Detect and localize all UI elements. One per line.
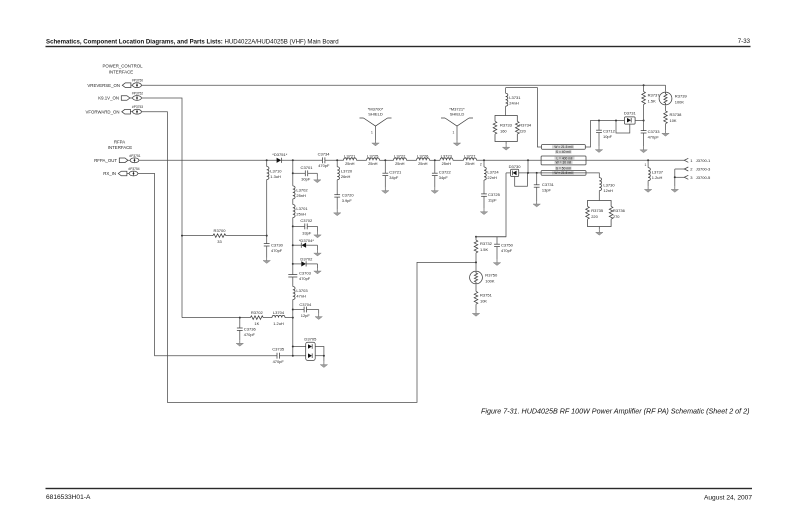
inductor L3731 24nH [506,88,522,116]
wire top microstrip right end up to detector [585,121,616,148]
ground C3750 [493,260,500,266]
svg-text:W = 30 mil: W = 30 mil [556,161,572,165]
thermistor R3750 100K [470,271,498,284]
thermistor R3739 100K [659,85,687,105]
connector J3700-3 [675,167,711,172]
node C3750/R3732 top [475,236,477,238]
svg-text:L3722: L3722 [394,153,406,158]
wire main line D3751 to C3734 [281,159,322,161]
svg-text:*D3704*: *D3704* [299,238,315,243]
svg-text:SHIELD: SHIELD [450,112,465,117]
svg-text:1: 1 [644,163,646,167]
node C3721 tap [384,159,386,161]
ground R3751 [472,310,479,316]
svg-text:C3704: C3704 [299,302,312,307]
svg-text:2: 2 [690,167,693,172]
capacitor C3701 30pF branch [292,165,318,181]
svg-text:470pF: 470pF [299,276,311,281]
svg-text:220: 220 [519,129,526,134]
svg-text:C3734: C3734 [318,151,331,156]
wire L3710 down to C3730 [266,180,268,244]
svg-text:R3750: R3750 [485,272,498,277]
port RX_IN #P3754 [103,167,140,176]
svg-text:L3702: L3702 [296,187,308,192]
capacitor C3702 33pF branch [292,218,318,235]
node D3731 input [615,120,617,122]
svg-text:470pF: 470pF [318,163,330,168]
svg-text:100K: 100K [675,99,685,104]
inductor L3725 25nH [367,153,380,166]
svg-text:*D3751*: *D3751* [272,152,288,157]
node C3712 tap [598,120,600,122]
svg-text:L3710: L3710 [270,168,282,173]
capacitor C3703 470pF (series in column) [288,270,311,281]
wire K9.1V_ON to vertical [141,98,182,318]
svg-text:#P3750: #P3750 [132,79,143,83]
svg-text:C3750: C3750 [501,242,514,247]
node C3731 tap [536,172,538,174]
resistor R3702 1K with wire from K9.1V vertical [182,310,264,326]
header rule [46,46,751,47]
svg-text:13pF: 13pF [542,188,552,193]
inductor L3702 25nH [293,186,309,199]
resistor pair box R3735 220 / R3736 270 [586,201,626,227]
svg-text:25nH: 25nH [296,211,306,216]
node K9.1V / R3700 [181,235,183,237]
svg-text:#P3752: #P3752 [132,92,143,96]
ground C3712 [595,147,602,153]
svg-text:3.9pF: 3.9pF [342,198,353,203]
ground R3735/R3736 box [596,227,603,236]
capacitor C3736 470pF [237,318,257,341]
svg-text:K9.1V_ON: K9.1V_ON [98,96,119,101]
wire [292,199,294,205]
node R3700 right end [266,235,268,237]
svg-text:SHIELD: SHIELD [368,112,383,117]
ground D3705 [320,362,327,368]
wire L3731 feed [506,88,542,147]
connector J3700-1 [684,158,711,163]
svg-text:C3725: C3725 [488,192,501,197]
inductor L3726 25nH [417,153,430,166]
svg-text:L3723: L3723 [441,153,453,158]
svg-text:25nH: 25nH [345,161,355,166]
microstrip bottom W=21.5mil [541,171,586,176]
svg-text:1: 1 [690,158,693,163]
svg-text:INTERFACE: INTERFACE [109,69,133,74]
svg-text:34pF: 34pF [389,175,399,180]
port K9.1V_ON #P3752 [98,92,143,101]
svg-text:2: 2 [480,163,482,167]
diode D3702 branch [292,257,318,268]
svg-text:C3703: C3703 [299,270,312,275]
capacitor C3720 3.9pF [334,180,354,210]
capacitor C3734 470pF (series) [318,151,331,168]
svg-text:#P3751: #P3751 [129,154,140,158]
svg-text:1.5K: 1.5K [480,247,488,252]
inductor L3710 1.3uH [267,160,283,179]
svg-text:33pF: 33pF [302,231,312,236]
spacing label S=40mil [555,150,572,154]
ground C3704 [315,314,322,320]
svg-text:220: 220 [591,214,598,219]
ground D3704 [314,250,321,256]
svg-text:10pF: 10pF [603,134,613,139]
svg-text:L3726: L3726 [417,153,429,158]
svg-text:W = 21.5 mil: W = 21.5 mil [554,145,572,149]
svg-text:1.2uH: 1.2uH [273,321,284,326]
svg-text:C3701: C3701 [301,165,314,170]
microstrip top W=21.5mil [542,145,586,150]
svg-text:L3730: L3730 [603,182,615,187]
inductor L3727 25nH [464,153,477,166]
svg-text:R3737: R3737 [648,93,661,98]
wire [430,159,441,161]
svg-text:1.2uH: 1.2uH [652,175,663,180]
inductor L3720 26nH shunt branch [337,160,353,180]
svg-text:470pF: 470pF [648,134,660,139]
wire column down to D3705 [292,300,294,356]
matching column wire from main line down [292,160,294,186]
svg-text:L3725: L3725 [367,153,379,158]
svg-text:D3730: D3730 [509,164,522,169]
wire column bridge to D3705 top pin [293,346,306,348]
node D3731 output [643,120,645,122]
resistor R3738 10K [664,106,682,131]
svg-text:INTERFACE: INTERFACE [108,145,132,150]
svg-text:R3751: R3751 [480,293,493,298]
resistor R3732 1.5K [474,237,492,271]
inductor L3730 12nH [599,178,615,201]
svg-text:L3720: L3720 [341,169,353,174]
svg-text:J3700-1: J3700-1 [696,158,711,163]
ground L3737 [644,186,651,192]
capacitor C3721 34pF shunt [382,160,402,187]
shield M3721 [441,107,473,141]
svg-text:1: 1 [371,131,373,135]
ground C3720 [334,210,341,216]
svg-text:J3700-5: J3700-5 [696,175,711,180]
svg-text:L3731: L3731 [509,95,521,100]
svg-text:12pF: 12pF [301,313,311,318]
capacitor C3704 12pF branch [292,302,319,318]
wire [292,277,294,287]
node L3724 tap [483,159,485,161]
svg-text:25nH: 25nH [296,193,306,198]
svg-text:L3724: L3724 [487,170,499,175]
wire [407,159,417,161]
node main line / L3737 [647,159,649,161]
capacitor C3733 470pF [641,121,661,147]
svg-text:24nH: 24nH [509,101,519,106]
node C3736 tap [239,317,241,319]
wire D3731 pins [616,120,625,122]
svg-text:1.5K: 1.5K [648,99,656,104]
diode pair D3705 in package [304,337,317,361]
inductor L3704 1.2uH [263,310,293,326]
svg-text:1.3uH: 1.3uH [270,174,281,179]
svg-text:R3734: R3734 [519,123,532,128]
svg-text:D3702: D3702 [300,257,313,262]
node D3730 out [527,172,529,174]
ground C3722 [431,188,438,194]
svg-text:10K: 10K [670,118,677,123]
svg-text:L3704: L3704 [273,310,285,315]
inductor L3722 25nH [394,153,407,166]
capacitor C3735 470pF (series, RX line) [272,347,305,364]
resistor R3737 1.5K [642,85,660,120]
svg-text:#P3754: #P3754 [128,167,139,171]
inductor L3723 25nH [440,153,453,166]
node D3705 pins [292,346,294,348]
svg-text:C3733: C3733 [648,129,661,134]
svg-text:22nH: 22nH [487,175,497,180]
svg-text:R3736: R3736 [613,208,626,213]
ground C3721 [382,188,389,194]
svg-text:1K: 1K [254,321,259,326]
svg-text:47nH: 47nH [296,293,306,298]
svg-text:470pF: 470pF [271,248,283,253]
ground D3702 [314,268,321,274]
wire J3700 ground bracket [674,169,676,186]
resistor R3700 33 with wire [182,228,267,244]
svg-text:L3721: L3721 [344,153,356,158]
wire D3731 package loop [616,121,630,134]
svg-text:25nH: 25nH [395,161,405,166]
node R3702 line joins column [292,317,294,319]
ground R3738 [662,130,669,136]
ground J3700 bracket [671,186,678,192]
svg-text:J3700-3: J3700-3 [696,167,711,172]
svg-text:26nH: 26nH [341,174,351,179]
node VFORWARD joins [475,261,477,263]
port VFORWARD_ON #P3753 [85,105,143,114]
svg-text:RFPA_OUT: RFPA_OUT [94,158,117,163]
wire main line C3734 to L3721 [325,159,344,161]
svg-text:1: 1 [452,131,454,135]
inductor L3724 22nH shunt branch [484,160,499,180]
svg-text:S = 50 mil: S = 50 mil [556,166,571,170]
svg-text:C3712: C3712 [603,128,616,133]
wire [380,159,394,161]
svg-text:33: 33 [217,239,222,244]
svg-text:25nH: 25nH [418,161,428,166]
wire main line through middle microstrip [541,159,586,161]
ground C3702 [314,232,321,238]
svg-text:25nH: 25nH [442,161,452,166]
resistor pair box R3733 160 / R3734 220 [493,116,532,142]
node C3722 tap [434,159,436,161]
microstrip middle L=400mil W=30mil [541,156,586,165]
svg-text:470pF: 470pF [244,332,256,337]
capacitor C3731 13pF [534,173,555,201]
spacing label S=50mil [555,166,572,170]
ground C3701 [314,177,321,183]
svg-text:RX_IN: RX_IN [103,171,116,176]
capacitor C3722 34pF shunt [432,160,452,187]
svg-text:30pF: 30pF [301,176,311,181]
svg-text:C3736: C3736 [244,327,257,332]
svg-text:12nH: 12nH [603,188,613,193]
svg-text:August 24, 2007: August 24, 2007 [704,495,752,502]
svg-text:11pF: 11pF [488,197,497,202]
wire [357,159,367,161]
svg-text:VFORWARD_ON: VFORWARD_ON [85,109,119,114]
svg-text:L3703: L3703 [296,288,308,293]
diode D3704 branch [292,238,318,250]
svg-text:C3722: C3722 [439,170,452,175]
ground C3736 [236,340,243,346]
wire through bottom microstrip [541,172,586,174]
capacitor C3730 470pF [264,242,284,257]
diode D3751 [272,152,288,163]
wire D3730 stub from main line [527,160,529,173]
wire D3730 pins [506,172,511,174]
capacitor C3750 470pF [476,237,514,260]
wire bottom microstrip to L3730 [586,173,599,178]
svg-text:C3735: C3735 [272,347,285,352]
port RFPA_OUT #P3751 [94,154,141,163]
node L3710 tap [266,159,268,161]
svg-text:34pF: 34pF [439,175,449,180]
svg-text:160: 160 [500,129,507,134]
ground M3700 [372,140,379,146]
svg-text:100K: 100K [485,278,495,283]
node matching column [292,159,294,161]
node D3730 stub [527,159,529,161]
inductor L3701 25nH [293,205,309,218]
svg-text:R3738: R3738 [670,112,683,117]
svg-text:C3730: C3730 [271,242,284,247]
svg-text:10K: 10K [480,299,487,304]
diode D3730 in package [509,164,522,177]
wire RX_IN down to C3735 [138,174,277,356]
node VREVERSE / R3737 [643,84,645,86]
svg-text:Figure 7-31. HUD4025B RF 100W: Figure 7-31. HUD4025B RF 100W Power Ampl… [481,407,750,416]
svg-text:D3705: D3705 [304,337,317,342]
svg-text:C3731: C3731 [542,182,555,187]
svg-text:L3737: L3737 [652,170,664,175]
wire main line L3727 to microstrip [477,159,542,161]
ground C3730 [263,258,270,264]
wire VFORWARD_ON down and around to R3732 node [141,112,476,403]
wire main RF line left span [139,159,277,161]
capacitor C3725 11pF [481,180,501,209]
footer rule [46,488,753,489]
wire column [292,218,294,275]
wire main line microstrip to J3700-1 [586,159,684,161]
wire D3730 package loop [515,173,528,186]
connector J3700-5 [675,175,711,180]
inductor L3703 47nH [293,287,309,300]
ground C3725 [480,209,487,215]
node L3720 tap [336,159,338,161]
svg-text:270: 270 [613,214,620,219]
svg-text:Schematics, Component Location: Schematics, Component Location Diagrams,… [46,39,339,46]
resistor R3751 10K [474,285,492,311]
svg-text:25nH: 25nH [368,161,378,166]
svg-text:L3701: L3701 [296,206,308,211]
svg-text:C3702: C3702 [300,218,313,223]
svg-text:R3732: R3732 [480,241,493,246]
inductor L3737 1.2uH [648,160,664,186]
shield M3700 [360,107,392,141]
ground M3721 [453,140,460,146]
inductor L3721 25nH [344,153,357,166]
svg-text:470pF: 470pF [501,248,513,253]
wire D3705 cathodes to ground [315,347,324,362]
svg-text:7-33: 7-33 [738,38,751,45]
wire [453,159,464,161]
wire D3730 anode down to R3732 node [476,173,506,237]
svg-text:R3702: R3702 [251,310,264,315]
svg-text:3: 3 [690,175,693,180]
ground C3731 [533,201,540,207]
capacitor C3712 10pF [596,121,616,147]
svg-text:R3739: R3739 [675,93,688,98]
svg-text:S = 40 mil: S = 40 mil [556,150,571,154]
svg-text:L3727: L3727 [464,153,476,158]
svg-text:L = 400 mil: L = 400 mil [556,156,572,160]
svg-text:470pF: 470pF [273,359,285,364]
svg-text:D3731: D3731 [624,110,637,115]
svg-text:R3735: R3735 [591,208,604,213]
svg-text:R3700: R3700 [214,228,227,233]
diode D3731 in package [624,110,637,124]
port VREVERSE_ON #P3750 [87,79,143,88]
svg-text:6816533H01-A: 6816533H01-A [46,494,91,501]
wire VREVERSE_ON net [141,84,665,86]
svg-text:POWER_CONTROL: POWER_CONTROL [102,64,143,69]
svg-text:#P3753: #P3753 [132,105,143,109]
svg-text:C3720: C3720 [342,193,355,198]
svg-text:R3733: R3733 [500,123,513,128]
svg-text:VREVERSE_ON: VREVERSE_ON [87,83,120,88]
svg-text:C3721: C3721 [389,170,402,175]
ground C3733 [640,147,647,153]
svg-text:RFPA: RFPA [114,139,125,144]
svg-text:25nH: 25nH [465,161,475,166]
ground R3733/R3734 box [502,142,509,151]
